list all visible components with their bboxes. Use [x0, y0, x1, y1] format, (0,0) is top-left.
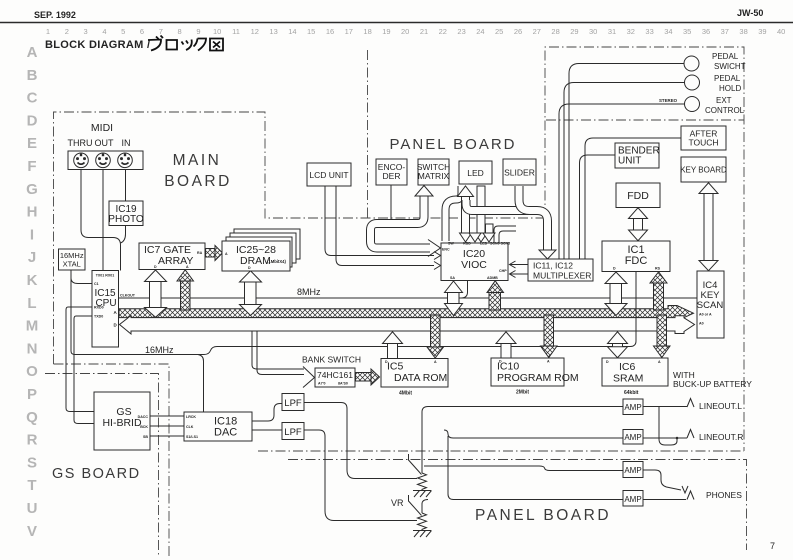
svg-text:8A'S0: 8A'S0	[338, 382, 348, 386]
wire IC19 PHOTO out to CPU RX01	[121, 226, 126, 244]
white arrow IC7 D to bus	[145, 270, 167, 317]
svg-text:I: I	[30, 226, 34, 243]
svg-text:TX01 RX01: TX01 RX01	[96, 274, 115, 278]
svg-text:M: M	[26, 318, 39, 335]
svg-text:FDC: FDC	[625, 255, 648, 267]
svg-text:K: K	[27, 272, 38, 289]
crystal 16MHz XTAL	[59, 249, 86, 270]
svg-text:RXD0: RXD0	[94, 306, 104, 310]
svg-text:THRU: THRU	[68, 138, 93, 148]
svg-text:12: 12	[251, 27, 259, 36]
svg-text:LCD UNIT: LCD UNIT	[309, 170, 348, 180]
svg-text:34: 34	[664, 27, 672, 36]
katakana burokku-zu drawn as strokes	[148, 36, 223, 51]
title BLOCK DIAGRAM	[45, 36, 223, 52]
sram IC6	[602, 358, 668, 386]
crosshatch arrow 74HC161 to IC5	[356, 369, 380, 385]
svg-text:IC11, IC12: IC11, IC12	[533, 261, 573, 271]
wire GS SB to IC18	[150, 435, 184, 437]
switch matrix box	[418, 159, 449, 185]
resistor VR2	[418, 513, 427, 530]
wire 8MHz clock line	[119, 297, 698, 299]
pedal hold connector	[685, 75, 700, 90]
MIDI connector box	[68, 151, 143, 170]
svg-text:UNIT: UNIT	[618, 156, 641, 167]
svg-text:A: A	[225, 252, 228, 256]
arrowhead mux to IC20 CHP line2	[510, 271, 529, 278]
wire 16MHz clock to IC1 FDC	[71, 272, 636, 355]
white arrow LED to IC20	[458, 186, 474, 242]
svg-text:TXD0: TXD0	[94, 315, 103, 319]
svg-text:24: 24	[476, 27, 484, 36]
crosshatch arrow bus down to IC5	[427, 315, 444, 358]
panel board left border	[367, 50, 369, 218]
svg-text:39: 39	[758, 27, 766, 36]
svg-text:XTAL: XTAL	[63, 260, 81, 269]
svg-text:BLOCK DIAGRAM /: BLOCK DIAGRAM /	[45, 39, 150, 51]
encoder box	[376, 159, 407, 185]
svg-text:AMP: AMP	[624, 433, 641, 442]
svg-text:HI-BRID: HI-BRID	[102, 417, 142, 429]
svg-text:PEDAL: PEDAL	[714, 74, 741, 83]
svg-text:LED: LED	[467, 168, 484, 178]
wire PEDAL SWICHT to multiplexer	[569, 64, 684, 260]
wire D bus tap to bank switch lower	[257, 331, 304, 375]
svg-text:SEP. 1992: SEP. 1992	[34, 10, 76, 20]
svg-text:A: A	[27, 44, 38, 61]
svg-text:CONTROL: CONTROL	[705, 106, 745, 115]
main board bottom border	[258, 450, 744, 452]
svg-text:16MHz: 16MHz	[145, 345, 174, 355]
svg-text:O: O	[26, 363, 38, 380]
arrowhead mux to IC20 CHP line1	[510, 261, 529, 268]
svg-text:R: R	[27, 432, 38, 449]
wire MIDI THRU down to CPU	[81, 170, 121, 271]
svg-text:AMP: AMP	[624, 466, 641, 475]
svg-text:IC5: IC5	[387, 361, 404, 373]
MIDI THRU jack	[74, 153, 89, 168]
svg-text:GS BOARD: GS BOARD	[52, 466, 141, 482]
svg-text:3: 3	[84, 27, 88, 36]
crosshatch arrow bus up to IC1 RS port	[650, 272, 667, 310]
svg-text:SRAM: SRAM	[613, 373, 643, 385]
row ruler letters	[26, 44, 39, 540]
svg-text:CLK: CLK	[186, 425, 194, 429]
svg-text:OUT: OUT	[95, 138, 115, 148]
svg-text:SWICHT: SWICHT	[714, 62, 746, 71]
wire VR1 wiper to AMP3	[424, 466, 623, 471]
svg-text:4Mbit: 4Mbit	[399, 391, 412, 397]
svg-text:HOLD: HOLD	[719, 84, 741, 93]
crosshatch arrow bus down to IC6	[654, 315, 671, 358]
svg-text:30: 30	[589, 27, 597, 36]
svg-text:1: 1	[46, 27, 50, 36]
white arrow IC1 D to bus	[605, 272, 627, 316]
svg-text:A: A	[547, 360, 550, 364]
svg-text:LPF: LPF	[284, 398, 302, 409]
resistor VR1	[418, 473, 427, 490]
wire IC18 to LPF1	[252, 404, 282, 422]
svg-text:20: 20	[401, 27, 409, 36]
svg-text:D: D	[606, 360, 609, 364]
wire PEDAL HOLD to multiplexer	[564, 83, 685, 260]
svg-text:G: G	[26, 181, 38, 198]
svg-text:DER: DER	[383, 171, 401, 181]
wire AMP3 out to phones jack	[643, 470, 681, 490]
wire IC20 SCN stub2	[499, 231, 516, 243]
svg-text:7: 7	[159, 27, 163, 36]
svg-text:D: D	[385, 360, 388, 364]
lpf1 box	[282, 394, 304, 411]
svg-text:FDD: FDD	[627, 190, 649, 202]
svg-text:A0 or A: A0 or A	[699, 313, 712, 317]
address bus A (crosshatch band with arrowhead)	[119, 306, 694, 321]
wire AMP2 out to jack	[643, 437, 687, 439]
svg-text:18: 18	[363, 27, 371, 36]
crosshatch arrow bus to IC7 A port	[177, 270, 194, 310]
svg-text:2: 2	[65, 27, 69, 36]
svg-text:6: 6	[140, 27, 144, 36]
svg-text:CHP: CHP	[499, 269, 507, 273]
svg-text:SA: SA	[450, 276, 455, 280]
svg-text:8MHz: 8MHz	[297, 287, 321, 297]
svg-text:23: 23	[457, 27, 465, 36]
wire XTAL to CPU C1	[71, 278, 92, 284]
svg-text:LRCK: LRCK	[186, 415, 196, 419]
svg-text:PANEL BOARD: PANEL BOARD	[475, 507, 611, 524]
svg-text:LINEOUT.L: LINEOUT.L	[699, 401, 742, 411]
svg-text:28: 28	[551, 27, 559, 36]
svg-text:MIDI: MIDI	[91, 122, 113, 134]
svg-text:SB: SB	[143, 435, 148, 439]
wire EXT CONTROL to multiplexer	[559, 104, 685, 259]
wire CPU TXD0 down to GS	[74, 316, 94, 424]
svg-text:TOUCH: TOUCH	[688, 138, 718, 148]
svg-text:J: J	[28, 249, 36, 266]
svg-text:D: D	[27, 112, 38, 129]
svg-text:14: 14	[288, 27, 296, 36]
svg-text:BANK SWITCH: BANK SWITCH	[302, 355, 361, 365]
opto isolator IC19	[109, 201, 143, 226]
arrowhead into 74HC161	[303, 367, 315, 388]
svg-text:PHOTO: PHOTO	[108, 214, 144, 225]
svg-text:(1MbitX4): (1MbitX4)	[267, 259, 286, 264]
crosshatch arrow IC7 to DRAM	[206, 246, 223, 261]
white arrow IC20 SA to bus	[445, 281, 463, 316]
gs board top border	[45, 374, 159, 558]
MIDI IN jack	[118, 153, 133, 168]
after touch box	[681, 126, 726, 150]
wiper VR2	[409, 495, 422, 516]
svg-text:10: 10	[213, 27, 221, 36]
jack lineout L	[687, 399, 694, 408]
wide arch path IC20 to LED area	[446, 186, 462, 241]
svg-text:KBD: KBD	[463, 242, 471, 246]
fdd box	[616, 183, 660, 208]
pedal area bottom border	[546, 119, 744, 121]
column ruler numbers	[46, 27, 785, 36]
wide path slider area down to IC20 scn	[483, 224, 495, 242]
ground VR1	[413, 491, 432, 498]
wire ENCODER down	[390, 185, 392, 220]
wire VR2 top lead	[422, 500, 428, 514]
svg-text:U: U	[27, 500, 38, 517]
svg-text:74HC161: 74HC161	[317, 370, 353, 380]
svg-text:RS: RS	[655, 267, 661, 271]
svg-text:EXT: EXT	[716, 96, 732, 105]
wire IC18 to LPF2	[252, 429, 282, 431]
svg-text:26: 26	[514, 27, 522, 36]
svg-text:MULTIPLEXER: MULTIPLEXER	[533, 271, 591, 281]
wire 8MHz branch to IC20	[461, 281, 468, 299]
svg-text:RA: RA	[197, 251, 203, 255]
svg-text:37: 37	[721, 27, 729, 36]
wire GS BCK to IC18	[150, 425, 184, 427]
wire GS DACC to IC18	[150, 415, 184, 417]
fdc IC1	[602, 241, 670, 272]
wire VR1 top to AMP1	[422, 407, 623, 474]
svg-text:F: F	[27, 158, 36, 175]
gs hybrid box	[94, 392, 150, 450]
svg-text:D: D	[499, 360, 502, 364]
crosshatch arrow bus down to IC10	[541, 315, 558, 358]
svg-text:H: H	[27, 204, 38, 221]
svg-text:VR: VR	[391, 498, 404, 508]
gate array IC7	[139, 243, 205, 270]
svg-text:KEY BOARD: KEY BOARD	[680, 166, 727, 175]
svg-text:17: 17	[345, 27, 353, 36]
svg-text:Q: Q	[26, 409, 38, 426]
svg-text:LED: LED	[480, 242, 488, 246]
wiper VR1	[409, 454, 422, 475]
svg-text:DACC: DACC	[138, 415, 149, 419]
svg-text:SCN0 SCN5: SCN0 SCN5	[490, 242, 510, 246]
wire clock branch to IC18 DAC	[198, 355, 204, 413]
wire AMP1 out to jack	[643, 406, 687, 408]
svg-text:DATA ROM: DATA ROM	[394, 372, 447, 384]
wire MIDI OUT to CPU TX01	[102, 170, 104, 271]
svg-text:29: 29	[570, 27, 578, 36]
wire MIDI IN to IC19 PHOTO	[125, 170, 127, 202]
dram stack IC25-28	[222, 229, 300, 271]
svg-text:LPF: LPF	[284, 427, 302, 438]
svg-text:C1: C1	[94, 282, 99, 286]
svg-text:SCAN: SCAN	[697, 300, 724, 311]
svg-text:35: 35	[683, 27, 691, 36]
svg-text:AMP: AMP	[624, 403, 641, 412]
svg-text:38: 38	[739, 27, 747, 36]
amp1 box	[623, 399, 643, 415]
jack phones tip	[682, 486, 688, 493]
arrowhead LCD line2	[434, 262, 441, 270]
wide path LED right to IC20	[469, 186, 487, 242]
svg-text:STEREO: STEREO	[659, 98, 678, 103]
wire branch down to AMP4	[448, 436, 623, 500]
jack lineout R	[687, 430, 694, 439]
vioc IC20	[441, 243, 508, 281]
svg-text:22: 22	[439, 27, 447, 36]
svg-text:ADMB: ADMB	[487, 276, 498, 280]
svg-text:DAC: DAC	[214, 427, 237, 439]
svg-text:SW: SW	[448, 242, 454, 246]
svg-text:C: C	[27, 90, 38, 107]
svg-text:4: 4	[102, 27, 106, 36]
white arrow KEY BOARD to IC4	[699, 183, 718, 271]
svg-text:40: 40	[777, 27, 785, 36]
svg-text:31: 31	[608, 27, 616, 36]
ext control connector	[685, 97, 700, 112]
svg-text:S1/LS1: S1/LS1	[186, 435, 198, 439]
wire lineout link loop	[659, 407, 677, 446]
data bus D (white band with arrowheads)	[120, 316, 695, 335]
svg-text:21: 21	[420, 27, 428, 36]
svg-text:LINEOUT.R: LINEOUT.R	[699, 432, 743, 442]
key board box	[681, 157, 726, 182]
wire D bus tap to bank switch upper	[252, 331, 304, 369]
svg-text:A: A	[658, 360, 661, 364]
svg-text:8: 8	[178, 27, 182, 36]
svg-text:A7'0: A7'0	[318, 382, 325, 386]
svg-text:11: 11	[232, 27, 240, 36]
white arrow IC6 to D bus	[608, 332, 628, 358]
svg-text:13: 13	[269, 27, 277, 36]
svg-text:PANEL BOARD: PANEL BOARD	[389, 136, 516, 153]
svg-text:5: 5	[121, 27, 125, 36]
wire CPU RXD0 down to GS	[66, 307, 94, 412]
svg-text:33: 33	[645, 27, 653, 36]
wire AFTER TOUCH to multiplexer	[585, 138, 681, 259]
main board bottom-left border	[54, 364, 170, 557]
wire AMP2 feed	[444, 430, 623, 438]
pedal swicht connector	[684, 56, 699, 71]
svg-text:PHONES: PHONES	[706, 490, 742, 500]
svg-text:16: 16	[326, 27, 334, 36]
wire LPF1 out down to VR1	[304, 403, 417, 479]
svg-text:L: L	[27, 295, 36, 312]
svg-text:27: 27	[533, 27, 541, 36]
amp2 box	[623, 430, 643, 445]
wide path switch matrix to IC20 ENC	[371, 186, 441, 257]
bender unit box	[615, 143, 659, 168]
key scan IC4	[697, 271, 724, 338]
slider box	[503, 159, 536, 185]
svg-text:S: S	[27, 454, 37, 471]
multiplexer IC11 IC12	[528, 259, 593, 281]
arrowhead LCD line1	[434, 252, 441, 260]
wire LCD UNIT to IC20 line2	[336, 186, 434, 266]
svg-text:IC6: IC6	[619, 361, 636, 373]
svg-text:PEDAL: PEDAL	[712, 52, 739, 61]
main board border left+top	[54, 112, 546, 364]
svg-text:SLIDER: SLIDER	[504, 168, 535, 178]
svg-text:T: T	[27, 477, 36, 494]
svg-text:E: E	[27, 135, 37, 152]
led box	[459, 161, 492, 184]
wire LCD UNIT to IC20 line1	[325, 186, 434, 256]
MIDI OUT jack	[96, 153, 111, 168]
svg-text:D: D	[613, 267, 616, 271]
svg-text:2Mbit: 2Mbit	[516, 390, 529, 396]
svg-text:V: V	[27, 523, 37, 540]
svg-text:VIOC: VIOC	[461, 259, 487, 271]
program rom IC10	[491, 358, 564, 386]
wire AMP4 out to jack	[643, 499, 686, 501]
svg-text:JW-50: JW-50	[737, 8, 763, 18]
svg-text:19: 19	[382, 27, 390, 36]
svg-text:32: 32	[627, 27, 635, 36]
wire BENDER UNIT to multiplexer	[580, 155, 616, 259]
white arrow DRAM D to bus	[240, 271, 262, 316]
svg-text:CLKOUT: CLKOUT	[120, 294, 136, 298]
wire LPF2 out down to VR2	[304, 430, 417, 521]
svg-text:9: 9	[196, 27, 200, 36]
wide path slider to multiplexer	[466, 186, 556, 259]
crosshatch arrow bus up to IC20 ADMB port	[487, 281, 504, 310]
ground VR2	[413, 531, 432, 538]
wire IC20 SCN stub1	[494, 226, 516, 243]
svg-text:IN: IN	[122, 138, 131, 148]
svg-text:25: 25	[495, 27, 503, 36]
svg-text:AMP: AMP	[624, 495, 641, 504]
svg-text:7: 7	[770, 541, 775, 551]
svg-text:BOARD: BOARD	[164, 173, 232, 190]
svg-text:P: P	[27, 386, 37, 403]
svg-text:A: A	[434, 360, 437, 364]
wire XTAL down	[70, 270, 72, 351]
svg-text:A0: A0	[699, 322, 704, 326]
data rom IC5	[381, 359, 448, 388]
svg-text:MATRIX: MATRIX	[418, 171, 450, 181]
svg-text:N: N	[27, 340, 38, 357]
svg-text:A: A	[186, 265, 189, 269]
white arrow IC5 to D bus	[383, 332, 403, 359]
svg-text:ENC: ENC	[442, 248, 450, 252]
bottom panel board border	[288, 460, 747, 551]
svg-text:64kbit: 64kbit	[624, 390, 639, 396]
jack phones ring	[687, 491, 694, 500]
lcd unit box	[307, 163, 351, 186]
svg-text:BCK: BCK	[140, 425, 148, 429]
junction dot	[676, 437, 679, 440]
svg-text:BUCK-UP BATTERY: BUCK-UP BATTERY	[673, 379, 752, 389]
svg-text:MAIN: MAIN	[173, 152, 222, 169]
svg-text:D: D	[154, 265, 157, 269]
svg-text:36: 36	[702, 27, 710, 36]
svg-text:B: B	[27, 67, 38, 84]
bank switch 74HC161	[315, 368, 355, 387]
svg-text:PROGRAM ROM: PROGRAM ROM	[497, 372, 579, 384]
cpu IC15	[92, 271, 119, 348]
dac IC18	[184, 412, 252, 441]
lpf2 box	[282, 423, 304, 440]
white arrow IC10 to D bus	[496, 332, 516, 359]
amp4 box	[623, 491, 643, 507]
amp3 box	[623, 462, 643, 478]
panel board border top right (pedal area)	[545, 47, 744, 451]
svg-text:15: 15	[307, 27, 315, 36]
white arrow FDD to IC1	[629, 208, 648, 241]
svg-text:D: D	[248, 266, 251, 270]
